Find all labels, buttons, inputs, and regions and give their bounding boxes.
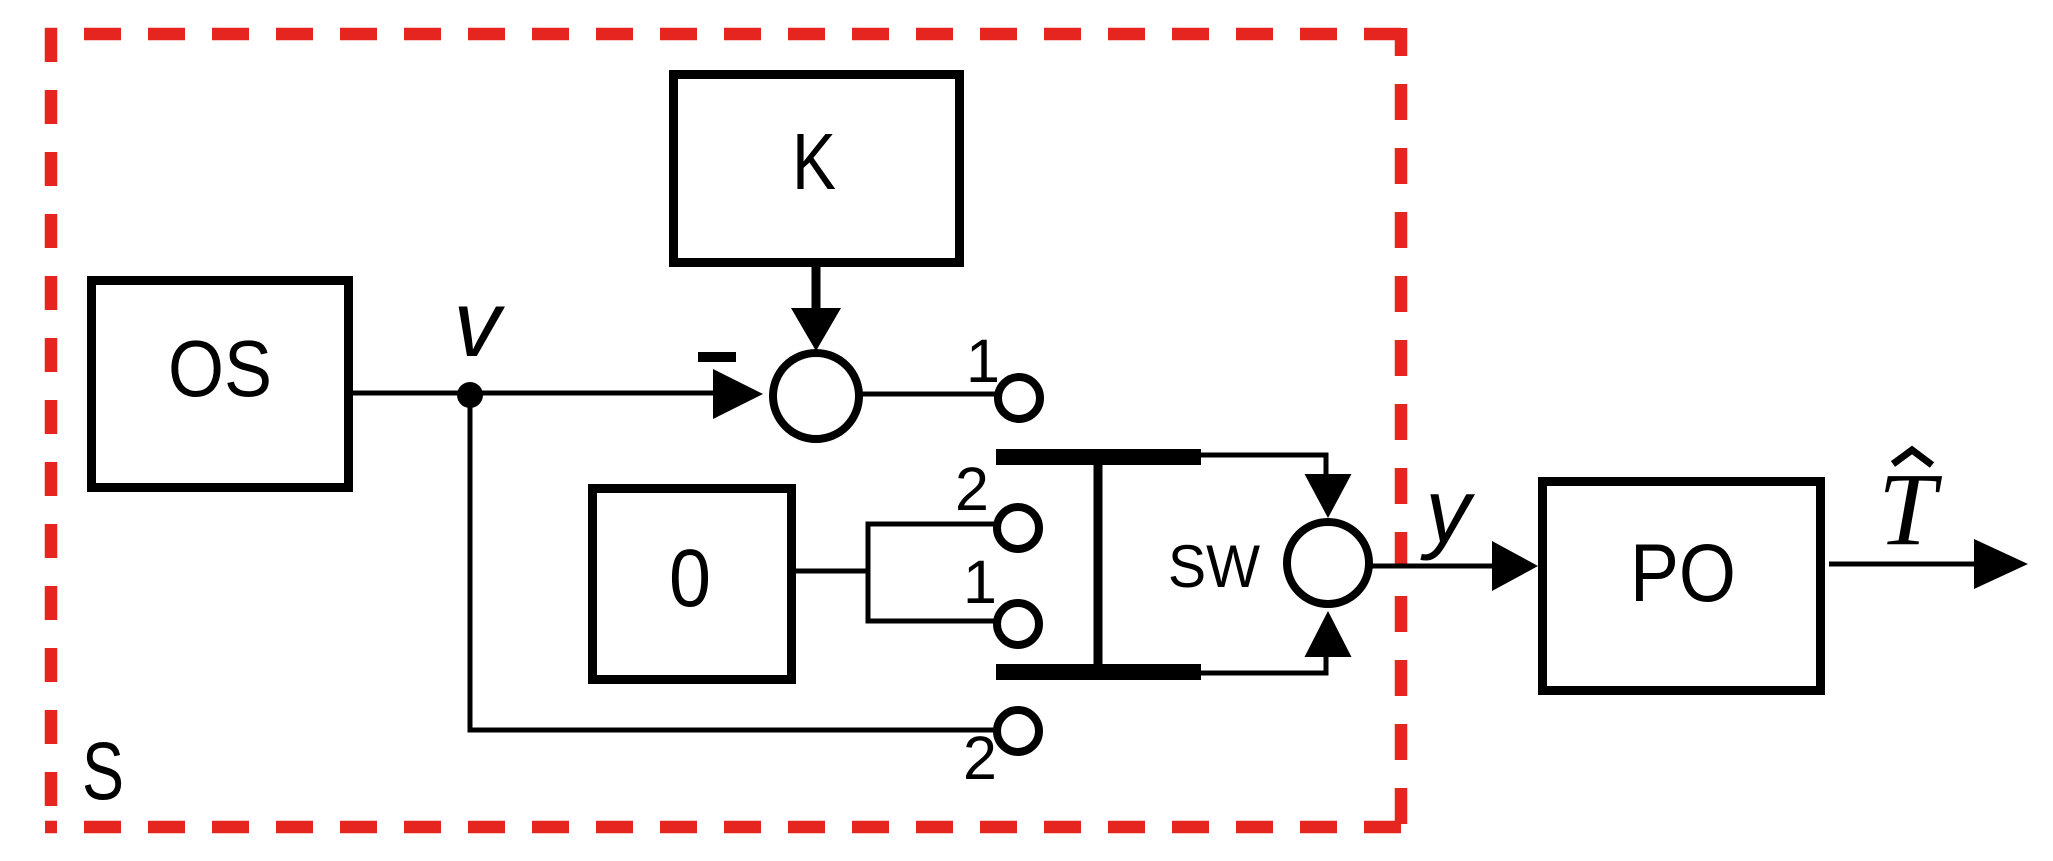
svg-text:T: T (1878, 452, 1942, 567)
svg-text:PO: PO (1630, 528, 1736, 619)
svg-text:v: v (454, 271, 506, 376)
svg-text:2: 2 (955, 455, 989, 523)
svg-text:1: 1 (963, 548, 997, 616)
svg-text:y: y (1420, 462, 1476, 562)
svg-text:K: K (792, 117, 836, 206)
svg-text:1: 1 (966, 327, 1000, 395)
svg-text:S: S (82, 726, 124, 817)
svg-text:0: 0 (669, 533, 711, 624)
svg-text:SW: SW (1168, 533, 1260, 600)
svg-text:2: 2 (963, 724, 997, 792)
svg-text:OS: OS (168, 324, 272, 413)
